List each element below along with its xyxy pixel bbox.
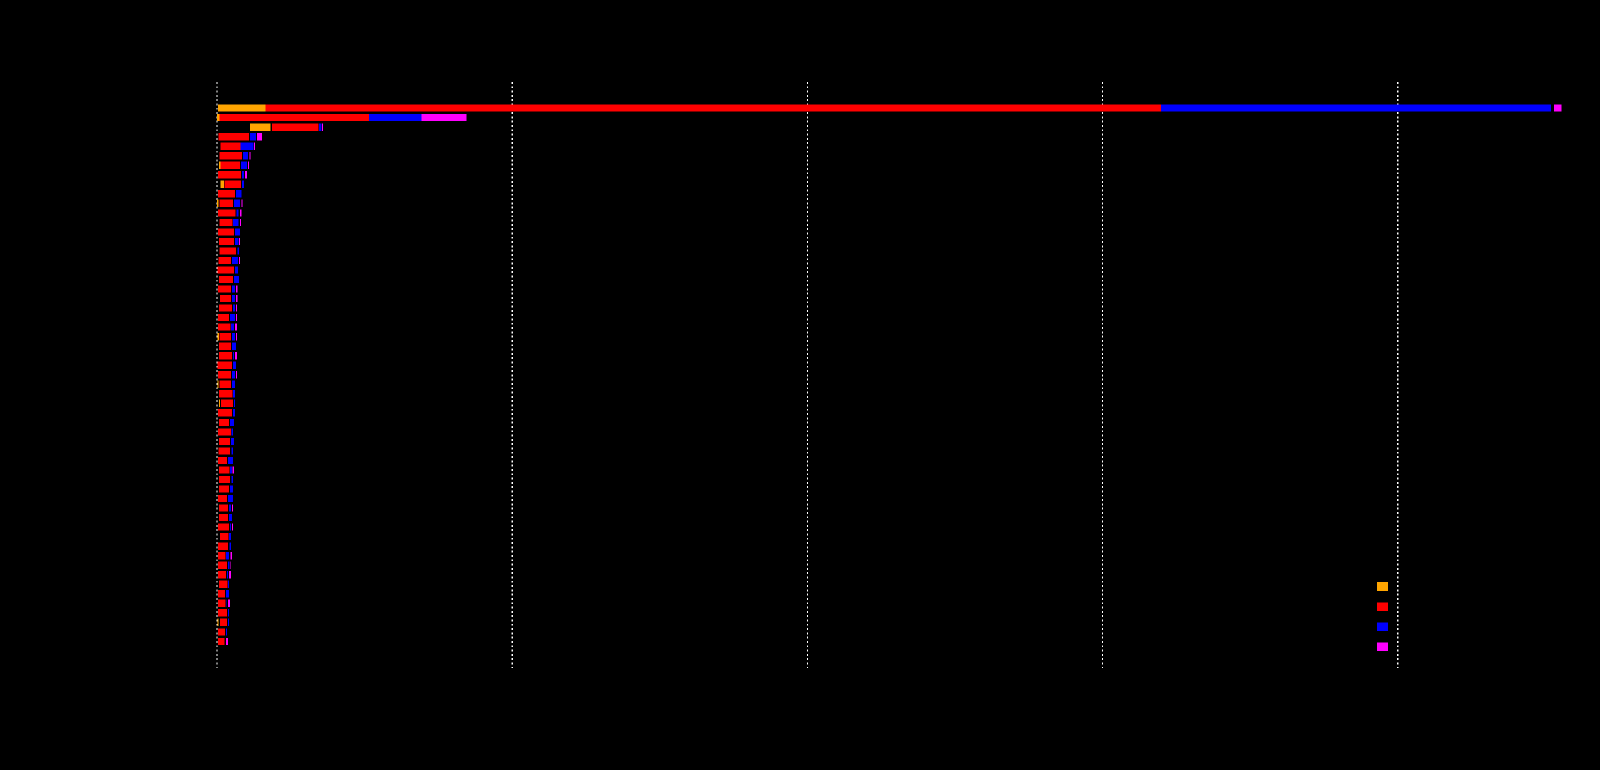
bar row 16 [219, 247, 239, 254]
bar row 21 [220, 295, 238, 302]
bar row 1 [218, 105, 1562, 112]
bar row 25 [218, 333, 237, 340]
bar row 13 [219, 219, 240, 226]
bar row 2 [217, 114, 467, 121]
bar row 10 [218, 190, 241, 197]
bar row 4 [218, 133, 262, 140]
bar row 29 [218, 371, 237, 378]
bar row 49 [218, 562, 231, 569]
bar row 32 [219, 400, 235, 407]
bar row 43 [219, 504, 233, 511]
bar row 18 [218, 266, 238, 273]
bar row 36 [219, 438, 234, 445]
legend swatch blue [1377, 622, 1388, 631]
bar row 34 [219, 419, 234, 426]
bar row 37 [219, 447, 233, 454]
bar row 9 [221, 181, 244, 188]
bar row 14 [218, 228, 240, 235]
bar row 55 [218, 619, 229, 626]
bar row 38 [218, 457, 233, 464]
bar row 30 [218, 381, 235, 388]
x-gridline 5 [1397, 82, 1399, 668]
bar row 42 [218, 495, 233, 502]
bar row 8 [218, 171, 247, 178]
bar row 5 [221, 143, 256, 150]
bar row 47 [218, 543, 231, 550]
bar row 51 [219, 581, 229, 588]
bar row 52 [218, 590, 229, 597]
bar row 41 [219, 485, 233, 492]
bar row 3 [250, 124, 323, 131]
bar row 12 [218, 209, 242, 216]
bar row 11 [217, 200, 243, 207]
bar row 19 [219, 276, 239, 283]
bar row 39 [219, 466, 234, 473]
bar row 46 [220, 533, 231, 540]
bar row 22 [219, 304, 237, 311]
legend swatch red [1377, 602, 1388, 611]
bar row 20 [218, 285, 238, 292]
x-gridline 1 (axis x=0) [216, 82, 218, 668]
bar row 44 [219, 514, 232, 521]
bar row 15 [219, 238, 240, 245]
bar row 27 [219, 352, 237, 359]
x-gridline 3 [807, 82, 809, 668]
x-gridline 2 [511, 82, 513, 668]
bar row 50 [218, 571, 231, 578]
bar row 23 [218, 314, 237, 321]
x-gridline 4 [1102, 82, 1104, 668]
bar row 48 [218, 552, 232, 559]
bar row 40 [219, 476, 233, 483]
bar row 6 [219, 152, 250, 159]
bar row 57 [218, 638, 228, 645]
bar row 53 [218, 600, 230, 607]
bar row 26 [219, 343, 236, 350]
bar row 7 [219, 162, 249, 169]
bar row 17 [219, 257, 240, 264]
bar row 31 [219, 390, 235, 397]
bar row 54 [218, 609, 229, 616]
bar row 45 [218, 524, 233, 531]
bar row 56 [218, 628, 227, 635]
bar row 35 [218, 428, 233, 435]
legend swatch magenta [1377, 642, 1388, 651]
bar row 28 [218, 362, 237, 369]
bar row 33 [218, 409, 235, 416]
legend swatch orange [1377, 582, 1388, 591]
bar row 24 [218, 324, 237, 331]
